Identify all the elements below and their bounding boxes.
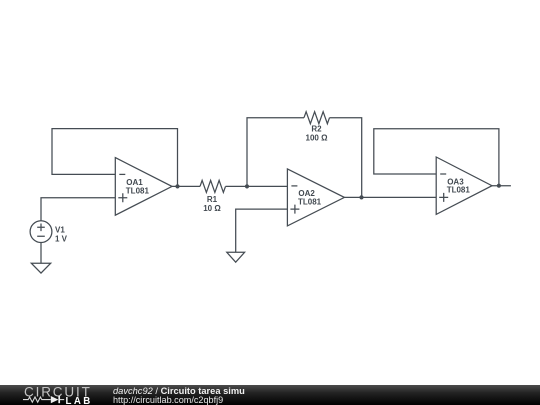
ground below OA2	[227, 252, 245, 262]
node junction OA2 output/R2	[359, 195, 363, 199]
resistor R2	[304, 112, 330, 124]
wire OA1 feedback loop (output to inverting input)	[52, 129, 178, 187]
op-amp OA3	[436, 157, 492, 214]
wire R1 to OA2 inverting input	[226, 185, 288, 187]
wire OA3 feedback loop (output to inverting input)	[374, 129, 499, 186]
svg-text:10 Ω: 10 Ω	[203, 204, 221, 213]
node junction OA3 output/feedback	[497, 184, 501, 188]
wire OA2 non-inverting input to ground	[236, 209, 288, 252]
label V1 value	[55, 226, 68, 244]
label OA1 TL081	[126, 178, 150, 195]
wire OA1 non-inverting input to V1	[41, 198, 115, 221]
svg-text:100 Ω: 100 Ω	[306, 134, 329, 143]
svg-text:TL081: TL081	[126, 186, 150, 195]
label R1 10 ohm	[203, 195, 221, 213]
node junction OA1 output/feedback	[175, 184, 179, 188]
ground below V1	[31, 263, 50, 273]
CircuitLab logo	[22, 384, 117, 405]
svg-text:R1: R1	[207, 195, 218, 204]
wire V1 to ground	[40, 243, 42, 264]
op-amp OA2	[287, 169, 344, 226]
wire OA1 output	[172, 185, 200, 187]
svg-text:V1: V1	[55, 226, 65, 235]
node junction R1/R2	[245, 184, 249, 188]
svg-text:LAB: LAB	[66, 396, 93, 405]
svg-text:TL081: TL081	[298, 197, 322, 206]
op-amp OA1	[115, 158, 172, 216]
footer credit text	[113, 386, 245, 396]
svg-text:1 V: 1 V	[55, 234, 68, 243]
svg-text:R2: R2	[311, 124, 322, 133]
wire OA2 output to OA3 non-inverting input	[344, 196, 436, 198]
wire OA3 output stub	[492, 185, 511, 187]
voltage source V1	[30, 221, 52, 243]
footer bar	[0, 385, 540, 405]
wire node up to R2 left	[247, 118, 304, 187]
wire R2 right down to OA2 output	[330, 118, 362, 198]
label OA2 TL081	[298, 189, 322, 206]
label OA3 TL081	[447, 177, 471, 194]
svg-text:TL081: TL081	[447, 186, 471, 195]
label R2 100 ohm	[306, 124, 329, 142]
resistor R1	[200, 180, 226, 192]
